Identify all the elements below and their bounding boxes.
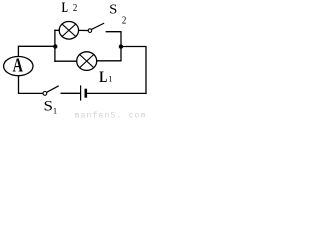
svg-text:S: S <box>109 3 117 17</box>
svg-text:1: 1 <box>108 73 112 83</box>
svg-text:S: S <box>43 98 52 114</box>
svg-text:L: L <box>62 0 68 16</box>
svg-text:manfen5. com: manfen5. com <box>75 112 147 121</box>
svg-text:L: L <box>99 69 107 86</box>
svg-text:2: 2 <box>122 15 127 27</box>
svg-text:2: 2 <box>73 2 78 14</box>
svg-text:1: 1 <box>53 106 57 116</box>
svg-text:A: A <box>13 54 24 76</box>
